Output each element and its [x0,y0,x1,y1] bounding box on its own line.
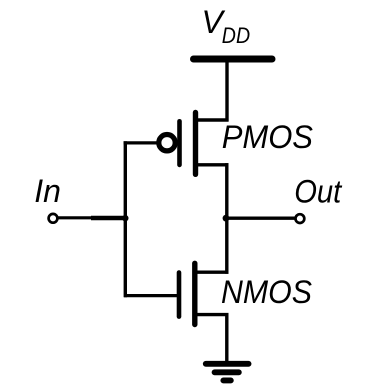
PMOS source stub [196,118,229,121]
svg-text:NMOS: NMOS [221,274,312,310]
wire NMOS source to ground [225,313,228,362]
PMOS gate inversion bubble [159,135,175,151]
transistor PMOS [159,113,229,175]
PMOS drain stub [196,163,229,166]
PMOS channel bar [193,113,198,175]
node In junction [122,215,128,221]
transistor NMOS [179,263,229,324]
wire In segment 2 [91,216,126,220]
svg-text:DD: DD [222,23,250,48]
svg-text:PMOS: PMOS [222,119,313,155]
power rail VDD [194,56,273,63]
wire gate column vertical [124,141,127,297]
NMOS gate bar [177,273,182,317]
node output junction [223,215,230,222]
wire NMOS gate [124,294,178,297]
NMOS source stub [195,313,229,316]
svg-text:In: In [34,173,61,209]
wire In terminal to gate column [58,216,93,219]
terminal Out [296,214,305,223]
NMOS drain stub [195,271,229,274]
wire PMOS gate [124,141,158,144]
svg-text:Out: Out [294,173,342,209]
wire PMOS drain to NMOS drain (output column) [225,163,228,274]
wire output node to Out terminal [227,216,295,219]
ground [206,364,249,381]
wire VDD rail to PMOS source stub [225,59,228,122]
NMOS channel bar [192,263,197,324]
PMOS gate bar [177,121,182,165]
terminal In [49,214,58,223]
